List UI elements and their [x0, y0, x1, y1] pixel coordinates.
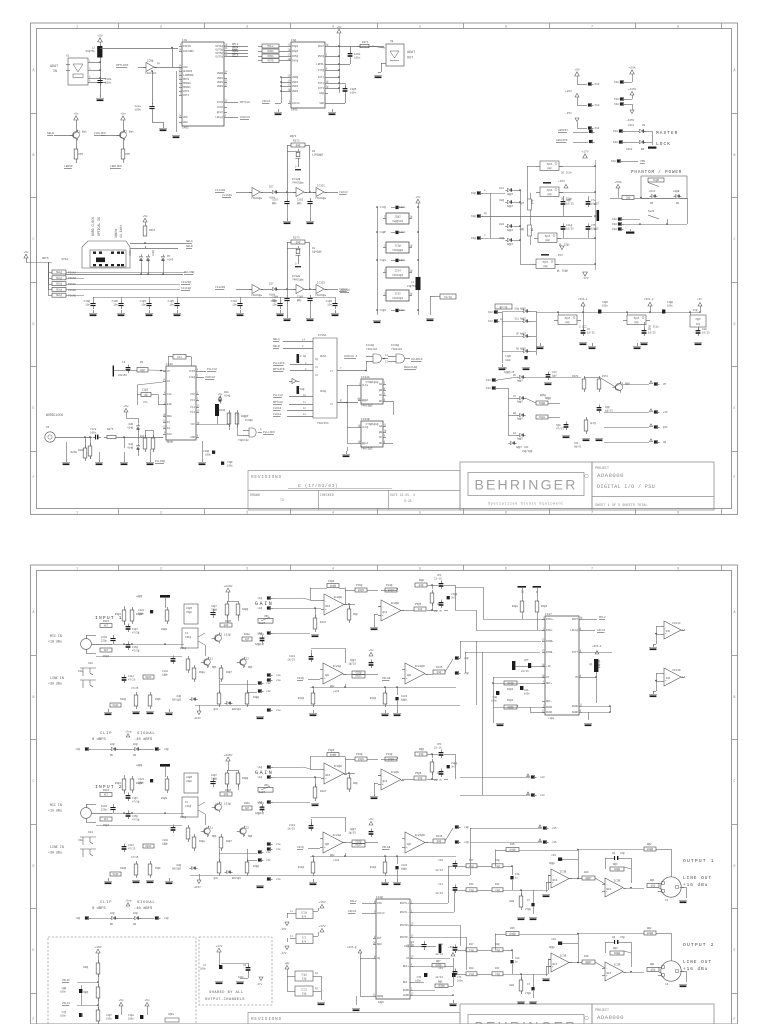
svg-text:C@@: C@@ [520, 228, 525, 231]
svg-text:74HCU@a: 74HCU@a [292, 181, 304, 185]
svg-text:USR2: USR2 [292, 85, 299, 88]
svg-text:220p: 220p [101, 640, 108, 643]
svg-text:REF-: REF- [403, 981, 410, 984]
svg-text:R14@: R14@ [298, 865, 305, 869]
svg-text:P167: P167 [355, 844, 362, 847]
svg-text:D: D [734, 864, 736, 868]
svg-text:ULRCLK A: ULRCLK A [344, 355, 358, 358]
svg-text:ROUTL-: ROUTL- [400, 911, 410, 914]
svg-text:+@@@: +@@@ [136, 763, 143, 767]
svg-text:@a@@: @a@@ [509, 932, 516, 936]
svg-text:1@/25: 1@/25 [348, 831, 356, 835]
svg-text:4: 4 [332, 567, 334, 571]
svg-text:DRAWN: DRAWN [250, 493, 260, 497]
svg-text:IC32D: IC32D [317, 281, 325, 284]
svg-text:@a@@: @a@@ [509, 848, 516, 852]
svg-text:262150: 262150 [118, 374, 127, 377]
svg-text:C@@: C@@ [626, 196, 631, 200]
svg-text:+5v: +5v [415, 196, 421, 199]
svg-text:@a@: @a@ [296, 143, 301, 147]
svg-text:+A15V: +A15V [224, 754, 233, 757]
svg-text:OUTPUT-CHANNELS: OUTPUT-CHANNELS [205, 998, 245, 1002]
svg-text:R14@: R14@ [370, 696, 377, 700]
svg-text:@L IC@@: @L IC@@ [557, 269, 568, 273]
svg-text:C1@@: C1@@ [451, 761, 458, 765]
svg-text:B: B [734, 153, 736, 157]
svg-text:A@@7: A@@7 [517, 418, 523, 421]
svg-text:1@F: 1@F [325, 673, 330, 677]
svg-text:DIGITAL I/O / PSU: DIGITAL I/O / PSU [597, 484, 655, 490]
svg-text:220p: 220p [101, 809, 108, 812]
svg-text:x1a: x1a [276, 848, 281, 851]
svg-text:33@: 33@ [302, 978, 307, 981]
svg-text:MOL2: MOL2 [267, 45, 274, 48]
svg-text:1@F: 1@F [407, 673, 412, 677]
svg-text:OPTCLK: OPTCLK [240, 101, 250, 104]
svg-text:4@7: 4@7 [245, 806, 250, 810]
svg-text:RST@: RST@ [318, 54, 325, 58]
svg-text:C@7: C@7 [520, 202, 525, 205]
svg-text:GN: GN [650, 202, 654, 205]
svg-text:C19@: C19@ [84, 299, 91, 303]
svg-text:C2@3: C2@3 [142, 388, 149, 392]
svg-text:3: 3 [246, 25, 248, 29]
svg-text:5a27: 5a27 [259, 622, 266, 625]
svg-text:2: 2 [160, 567, 162, 571]
svg-text:x32: x32 [266, 682, 271, 685]
svg-text:R267: R267 [149, 229, 156, 232]
svg-text:414@: 414@ [127, 447, 133, 450]
svg-text:22-/5: 22-/5 [434, 609, 442, 613]
svg-text:A@@7: A@@7 [520, 333, 526, 336]
svg-text:OC: OC [379, 394, 383, 397]
svg-text:C41: C41 [438, 967, 443, 970]
svg-text:X38: X38 [613, 141, 618, 144]
svg-text:R1F: R1F [495, 967, 500, 970]
svg-text:@a@: @a@ [543, 265, 548, 268]
svg-text:A@@7: A@@7 [520, 348, 526, 351]
svg-text:C@2: C@2 [409, 940, 414, 944]
svg-text:OPTLOCK: OPTLOCK [273, 368, 285, 371]
svg-text:18/25: 18/25 [287, 658, 295, 662]
svg-text:C2@5: C2@5 [186, 606, 193, 610]
svg-text:100n: 100n [350, 92, 357, 95]
svg-text:R2@a: R2@a [199, 671, 205, 674]
svg-text:44.1kHz: 44.1kHz [119, 225, 123, 238]
svg-text:+5v: +5v [368, 818, 374, 821]
svg-text:@@p: @@p [272, 201, 277, 205]
svg-text:+5v: +5v [23, 251, 29, 254]
svg-text:3: 3 [246, 567, 248, 571]
svg-text:R2@7: R2@7 [226, 840, 232, 843]
svg-text:C1@@: C1@@ [271, 299, 278, 303]
svg-text:A: A [734, 610, 736, 614]
svg-text:IN@A: IN@A [292, 49, 299, 53]
svg-text:CLK12: CLK12 [273, 407, 282, 410]
svg-text:X12: X12 [486, 387, 491, 390]
svg-text:+: + [324, 677, 326, 680]
svg-text:IN5@: IN5@ [292, 54, 299, 58]
svg-text:@2@: @2@ [651, 968, 656, 972]
svg-text:414@: 414@ [127, 427, 133, 430]
svg-text:PC2: PC2 [190, 406, 195, 409]
svg-text:@CLK: @CLK [217, 110, 224, 114]
svg-text:4@a@: 4@a@ [166, 440, 173, 444]
svg-text:R@5@: R@5@ [540, 394, 546, 397]
svg-text:DIGTHRU: DIGTHRU [183, 50, 194, 53]
svg-text:E: E [33, 406, 35, 410]
svg-text:10n: 10n [327, 304, 332, 307]
svg-text:+: + [382, 614, 384, 617]
svg-text:RINL+: RINL+ [546, 618, 554, 621]
svg-text:VC: VC [167, 370, 171, 373]
svg-text:X3A: X3A [78, 839, 83, 842]
svg-text:C@Pa: C@Pa [168, 1013, 174, 1016]
svg-text:DBH: DBH [167, 415, 172, 418]
svg-text:IC21D: IC21D [672, 669, 681, 672]
svg-text:PLLIN@: PLLIN@ [184, 270, 195, 274]
svg-text:PLLLOCK: PLLLOCK [273, 362, 285, 365]
svg-text:SL@1: SL@1 [112, 703, 119, 707]
svg-text:OUT1@: OUT1@ [215, 44, 223, 48]
svg-text:@1@2: @1@2 [358, 757, 365, 761]
svg-text:@@p: @@p [297, 201, 302, 205]
svg-text:T22: T22 [244, 658, 249, 661]
svg-text:+15V: +15V [565, 90, 572, 93]
svg-text:100n: 100n [128, 1018, 134, 1021]
svg-text:100n: 100n [105, 82, 112, 85]
svg-text:R273: R273 [293, 237, 300, 240]
svg-text:+: + [406, 677, 408, 680]
svg-text:CLFa: CLFa [362, 384, 369, 387]
svg-text:A@@7: A@@7 [517, 401, 523, 404]
svg-text:D1@: D1@ [515, 308, 520, 311]
svg-text:+5v: +5v [142, 215, 148, 218]
svg-text:R48: R48 [469, 883, 474, 886]
svg-text:x1@: x1@ [257, 606, 262, 610]
svg-text:x1@: x1@ [464, 840, 469, 844]
svg-text:47/5@: 47/5@ [132, 819, 140, 822]
svg-text:C1@: C1@ [495, 972, 500, 976]
svg-text:C41: C41 [438, 883, 443, 886]
svg-text:1@/25: 1@/25 [348, 662, 356, 666]
svg-text:R2@@: R2@@ [242, 607, 249, 611]
svg-text:74HCU@a: 74HCU@a [251, 196, 263, 200]
svg-text:R31@: R31@ [180, 815, 187, 819]
svg-text:P13@: P13@ [386, 583, 393, 587]
svg-text:X38: X38 [614, 81, 619, 84]
svg-text:IC21C: IC21C [672, 622, 681, 625]
svg-text:C48: C48 [438, 943, 443, 946]
svg-text:R316: R316 [103, 620, 110, 623]
svg-text:B74: B74 [302, 941, 307, 944]
svg-text:11M2@@5: 11M2@@5 [312, 153, 324, 157]
svg-text:LINE OUT: LINE OUT [683, 876, 712, 881]
svg-text:X13: X13 [595, 127, 600, 130]
svg-text:IC2@D: IC2@D [333, 595, 342, 599]
svg-text:IC3: IC3 [302, 937, 307, 940]
svg-text:R2B: R2B [509, 900, 514, 903]
svg-text:X12: X12 [488, 311, 493, 314]
svg-text:K2: K2 [167, 427, 171, 430]
svg-text:R145: R145 [436, 666, 443, 669]
svg-text:VP: VP [663, 383, 667, 386]
svg-text:HLDDFR: HLDDFR [183, 70, 193, 73]
svg-text:@1@@: @1@@ [507, 681, 514, 685]
svg-text:DIN: DIN [377, 902, 382, 905]
svg-text:R@1F: R@1F [145, 844, 152, 848]
svg-text:C@@: C@@ [566, 198, 571, 202]
svg-text:R@6: R@6 [438, 980, 443, 984]
svg-text:+1D: +1D [546, 665, 551, 668]
svg-text:C@@7: C@@7 [350, 658, 357, 662]
svg-text:4@7: 4@7 [245, 637, 250, 641]
svg-text:SIGNAL: SIGNAL [137, 901, 155, 905]
svg-text:+5VA-@: +5VA-@ [347, 945, 357, 949]
svg-text:R1@2: R1@2 [507, 687, 514, 691]
svg-text:@a@@: @a@@ [330, 753, 337, 757]
svg-text:100n: 100n [524, 693, 530, 696]
svg-text:@31: @31 [214, 877, 219, 880]
svg-text:R@7: R@7 [436, 959, 441, 963]
svg-text:USR@: USR@ [292, 75, 299, 79]
svg-text:-17V: -17V [581, 277, 588, 280]
svg-text:LD@: LD@ [110, 742, 115, 746]
svg-text:BAV1@3: BAV1@3 [232, 877, 241, 880]
svg-text:LRPOL: LRPOL [316, 63, 324, 66]
svg-text:X23: X23 [88, 831, 93, 834]
svg-text:M@15: M@15 [543, 261, 549, 264]
svg-text:C3: C3 [122, 361, 126, 364]
svg-text:8: 8 [677, 25, 679, 29]
svg-text:27@p: 27@p [525, 907, 532, 911]
svg-text:x3@: x3@ [164, 747, 169, 751]
svg-text:10n: 10n [169, 304, 174, 307]
svg-text:7C@1: 7C@1 [301, 974, 307, 977]
svg-text:x32: x32 [266, 859, 271, 862]
svg-text:PLLCLK: PLLCLK [207, 368, 218, 371]
svg-text:1@@n: 1@@n [162, 674, 168, 677]
svg-text:R2@@: R2@@ [242, 776, 249, 780]
svg-text:-: - [606, 967, 608, 970]
svg-text:VCF: VCF [190, 423, 195, 426]
svg-text:ULRCLK: ULRCLK [340, 289, 350, 292]
svg-text:C26: C26 [551, 938, 556, 941]
svg-text:RUN@: RUN@ [320, 389, 327, 393]
svg-text:RGND: RGND [546, 711, 553, 714]
svg-text:REF+: REF+ [403, 965, 410, 968]
svg-text:6: 6 [505, 567, 507, 571]
svg-text:WORDCLOCK: WORDCLOCK [46, 413, 63, 417]
svg-text:IC36A: IC36A [318, 334, 327, 337]
svg-text:C7: C7 [527, 983, 531, 986]
svg-text:SEL@: SEL@ [56, 270, 63, 274]
svg-text:R271: R271 [362, 41, 369, 44]
svg-text:C1@: C1@ [495, 864, 500, 868]
svg-text:1@@n: 1@@n [378, 1000, 385, 1004]
svg-text:R378: R378 [602, 375, 608, 378]
svg-text:E (17/03/03): E (17/03/03) [298, 483, 338, 489]
svg-text:4E7: 4E7 [104, 794, 109, 797]
svg-text:R47: R47 [469, 943, 474, 946]
svg-text:LINMODE: LINMODE [183, 74, 194, 77]
svg-text:OUTPUT 2: OUTPUT 2 [683, 942, 715, 948]
svg-text:C@A: C@A [556, 423, 561, 427]
svg-text:+@@@: +@@@ [136, 594, 143, 598]
svg-text:1: 1 [76, 511, 78, 515]
svg-text:WORD CLOCK: WORD CLOCK [91, 217, 95, 236]
svg-text:x1@: x1@ [257, 800, 262, 804]
svg-text:BF4: BF4 [607, 972, 612, 975]
svg-text:@a@: @a@ [545, 239, 550, 242]
svg-text:x1a: x1a [276, 843, 281, 846]
svg-text:C1@1: C1@1 [380, 258, 387, 262]
svg-text:LEDLOCK: LEDLOCK [556, 139, 568, 142]
svg-text:x3@: x3@ [75, 747, 80, 751]
svg-text:X1@: X1@ [471, 214, 476, 218]
svg-text:C2@5: C2@5 [186, 775, 193, 779]
svg-text:X1@: X1@ [471, 191, 476, 195]
svg-text:5a27: 5a27 [259, 791, 266, 794]
svg-text:IC3B: IC3B [560, 954, 567, 957]
svg-text:+10 dBu: +10 dBu [48, 809, 62, 813]
svg-text:-: - [382, 775, 384, 778]
svg-text:K1: K1 [167, 421, 171, 424]
svg-text:C26: C26 [551, 854, 556, 857]
svg-text:x1@: x1@ [257, 775, 262, 779]
svg-text:R3@F: R3@F [155, 698, 161, 701]
svg-text:SEL@: SEL@ [56, 293, 63, 297]
svg-text:X38: X38 [611, 160, 616, 163]
svg-text:R2@@: R2@@ [253, 865, 259, 868]
svg-text:LD1F: LD1F [649, 190, 656, 193]
svg-text:R26@: R26@ [78, 449, 84, 452]
svg-text:x1a: x1a [276, 679, 281, 682]
svg-text:8: 8 [677, 567, 679, 571]
svg-text:R2: R2 [140, 361, 144, 364]
svg-text:C2@5: C2@5 [350, 87, 357, 91]
svg-text:10/25: 10/25 [587, 331, 595, 335]
svg-text:@C4: @C4 [383, 610, 388, 614]
svg-text:P13@: P13@ [386, 752, 393, 756]
svg-text:OPTCLK: OPTCLK [273, 401, 283, 404]
svg-text:131@: 131@ [185, 635, 192, 639]
svg-text:C@: C@ [612, 851, 616, 855]
svg-text:VOL1B: VOL1B [382, 677, 391, 680]
svg-text:LEDFST: LEDFST [558, 129, 568, 132]
svg-text:+: + [324, 846, 326, 849]
svg-text:A@@7: A@@7 [520, 318, 526, 321]
svg-text:MODE0: MODE0 [183, 82, 191, 85]
svg-text:-: - [665, 626, 667, 629]
svg-text:SELA: SELA [186, 240, 193, 243]
svg-text:IC@3: IC@3 [394, 215, 401, 219]
svg-text:+5V: +5V [97, 35, 103, 38]
svg-text:+17V: +17V [215, 945, 222, 948]
svg-text:R292: R292 [244, 633, 250, 636]
svg-text:100n: 100n [200, 968, 206, 971]
svg-text:FNT1: FNT1 [183, 94, 190, 97]
svg-text:3: 3 [246, 511, 248, 515]
svg-text:@@p: @@p [297, 298, 302, 302]
svg-text:A@@7: A@@7 [507, 192, 514, 196]
svg-text:10/25: 10/25 [566, 226, 574, 230]
svg-text:LD17: LD17 [628, 124, 635, 127]
svg-text:+30 dBu: +30 dBu [48, 851, 62, 855]
svg-text:22@/1@@: 22@/1@@ [522, 450, 533, 453]
svg-text:R31@: R31@ [180, 646, 187, 650]
svg-text:F: F [33, 1017, 35, 1021]
svg-text:74@C132: 74@C132 [238, 438, 249, 442]
svg-text:1@F: 1@F [407, 842, 412, 846]
svg-text:74HC@@2: 74HC@@2 [392, 248, 404, 252]
svg-text:-: - [324, 669, 326, 672]
svg-text:CLIP: CLIP [100, 732, 112, 736]
svg-text:R47: R47 [469, 859, 474, 862]
svg-text:C1@3: C1@3 [140, 299, 147, 303]
svg-text:X38: X38 [612, 218, 617, 221]
svg-text:@31: @31 [214, 708, 219, 711]
svg-text:C48: C48 [438, 859, 443, 862]
svg-text:74HC3@3: 74HC3@3 [392, 273, 404, 277]
svg-text:R@2: R@2 [647, 926, 652, 930]
svg-text:LRCL@: LRCL@ [215, 115, 223, 119]
svg-text:1A: 1A [682, 629, 686, 632]
svg-text:X31Q: X31Q [297, 677, 304, 680]
svg-text:+A15V: +A15V [628, 88, 637, 91]
svg-text:IC34A: IC34A [361, 376, 370, 379]
svg-text:R2@7: R2@7 [226, 671, 232, 674]
svg-text:-: - [382, 606, 384, 609]
svg-text:AGND: AGND [403, 994, 410, 997]
svg-text:A: A [33, 610, 35, 614]
svg-text:7a@@132: 7a@@132 [392, 219, 404, 223]
svg-text:-: - [406, 669, 408, 672]
svg-text:ULLRCLK: ULLRCLK [411, 358, 423, 361]
svg-text:PP5: PP5 [126, 153, 131, 156]
svg-text:C1@4: C1@4 [326, 299, 333, 303]
svg-text:D2@: D2@ [499, 198, 504, 202]
svg-text:x1@: x1@ [257, 765, 262, 769]
svg-text:R3@8: R3@8 [161, 796, 168, 800]
svg-text:M@6: M@6 [212, 666, 217, 669]
svg-text:ROUTR-: ROUTR- [400, 936, 410, 939]
svg-text:-15V: -15V [565, 112, 572, 115]
svg-text:9:25: 9:25 [404, 499, 412, 503]
svg-text:IC21@R: IC21@R [414, 664, 425, 668]
svg-text:R2B: R2B [509, 984, 514, 987]
svg-text:P5@5: P5@5 [415, 771, 422, 775]
svg-text:1NH: 1NH [167, 433, 172, 436]
svg-text:M@6: M@6 [248, 666, 253, 669]
svg-text:ULRCLK: ULRCLK [205, 376, 216, 379]
svg-text:5a38: 5a38 [648, 210, 655, 213]
svg-text:-A15V: -A15V [193, 886, 201, 889]
svg-text:-: - [406, 838, 408, 841]
svg-text:x1@: x1@ [464, 656, 469, 660]
svg-text:X9: X9 [390, 40, 394, 43]
svg-text:33@n: 33@n [186, 779, 193, 783]
svg-text:ADA8000: ADA8000 [597, 472, 624, 479]
svg-text:+17V: +17V [318, 925, 325, 928]
svg-text:PLLIN@: PLLIN@ [155, 459, 165, 463]
svg-text:F: F [734, 1017, 736, 1021]
svg-text:R@1: R@1 [650, 878, 655, 882]
svg-text:@1@2: @1@2 [388, 588, 395, 592]
svg-text:3@@p: 3@@p [549, 945, 556, 949]
svg-text:IC2@E: IC2@E [390, 770, 399, 774]
svg-text:PP5: PP5 [79, 153, 84, 156]
